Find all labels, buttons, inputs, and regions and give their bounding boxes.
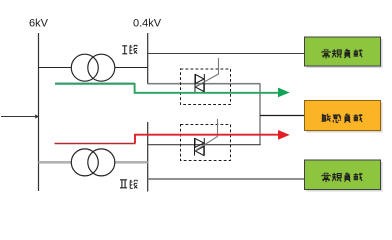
dashed box STS U2 [181,125,231,161]
load box shadow 2 [307,103,383,133]
svg-text:0.4kV: 0.4kV [133,18,162,30]
text 敏感负载 [321,114,362,123]
gate lead U2 [196,119,218,151]
wire T1 primary (6kV bus to transformer I) [39,67,72,69]
red flow arrow (section II power path) [55,143,136,145]
transformer T1 [71,54,115,81]
svg-text:6kV: 6kV [29,18,49,30]
bus 0.4kV section I [147,33,149,84]
load box 1 (regular load) [305,37,381,66]
wire STS2 input (bus II to vertical, black) [148,144,261,146]
wire feeder to regular load 2 [148,178,305,180]
transformer T2 [71,149,115,176]
load box shadow 3 [307,162,383,192]
gate lead U1 [196,58,219,87]
load box shadow 1 [307,39,383,68]
wire feeder to regular load 1 [148,53,305,55]
thyristor pair U2 [195,138,205,156]
label II段 (section II) [120,180,127,188]
thyristor pair U1 [195,74,204,92]
wire T1 secondary (transformer I to 0.4kV bus I) [115,67,148,69]
wire T2 line (thick gray through transformer II) [39,161,148,164]
load box 2 (regular load) [305,160,381,190]
wire grid infeed at left edge [1,116,36,118]
bus 6kV (left vertical busbar) [38,33,40,191]
label I段 (section I) [122,46,127,54]
bus 0.4kV section II [147,122,149,192]
load box sensitive [305,101,381,131]
dashed box STS U1 [181,69,231,105]
wire STS1 input (gray, bus I to vertical drop) [148,83,261,85]
arrowhead into 6kV bus [35,114,39,118]
text 常规负载 [322,173,363,183]
wire dark top edge under green left segment [55,82,135,84]
green flow arrow (section I power path) [55,84,279,93]
wire feeder to sensitive load [260,115,305,117]
text 常规负载 [322,49,363,59]
gray vertical to sensitive feeder [259,84,261,145]
